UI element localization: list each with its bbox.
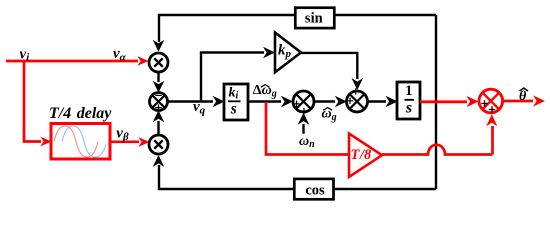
waveform blue sine inside T/4 delay box	[62, 126, 106, 157]
wire: S0 output vq to ki/s box	[168, 96, 225, 108]
node delta omega_g hat label	[253, 83, 277, 100]
wire: red tap from delta-omega node down and right to T/8	[266, 102, 349, 155]
wire: red input line vi	[6, 56, 149, 66]
box ki/s integrator	[224, 84, 248, 120]
multiplier M2	[149, 135, 168, 154]
summing junction S1 with plus plus	[293, 91, 314, 114]
wire: M2 output up into summing junction S0	[153, 110, 165, 135]
op-amp kp	[275, 33, 301, 73]
wire: top feedback line from sin box going left then down into multiplier M1	[153, 15, 296, 52]
op-amp T/8 (red)	[349, 134, 382, 178]
wire: branch from vq line up and right into kp amplifier	[201, 47, 275, 102]
box T/4 delay	[49, 105, 112, 159]
wire: omega_n input up into S1	[298, 113, 310, 134]
box 1/s integrator	[397, 82, 420, 119]
svg-text:T/8: T/8	[351, 147, 372, 163]
box sin	[295, 8, 334, 28]
node omega_g hat label	[322, 106, 337, 123]
svg-text:T/4 delay: T/4 delay	[49, 105, 112, 122]
svg-text:s: s	[405, 100, 412, 117]
svg-text:cos: cos	[305, 183, 325, 199]
box cos	[294, 179, 333, 199]
wire: T/4 delay output (v_beta) into multiplier M2	[110, 137, 150, 147]
svg-text:s: s	[230, 101, 237, 118]
wire: 1/s output (red) across feedback line into summing junction S3	[420, 96, 479, 107]
wire: bottom feedback line from vertical line to cos box	[334, 188, 437, 190]
wire: theta hat output (red)	[503, 95, 545, 106]
svg-text:vα: vα	[113, 46, 127, 64]
wire: cos box left side going left then up into multiplier M2	[153, 155, 295, 189]
svg-text:ωn: ωn	[299, 134, 315, 150]
summing junction S0 with minus and plus	[150, 93, 168, 111]
wire: vertical feedback line on the right	[435, 15, 437, 189]
wire: sin box right side to vertical feedback line	[334, 14, 436, 16]
summing junction S3 (red) with plus plus	[479, 89, 503, 113]
wire: S2 output into 1/s integrator	[368, 96, 398, 108]
wire: red vertical up into S3	[486, 114, 497, 154]
wire: S1 output (omega_g hat) into summing junction S2	[314, 96, 347, 108]
waveform red sine inside T/4 delay box	[54, 126, 98, 157]
wire: kp output right then down into summing junction S2	[301, 53, 363, 90]
wire: ki/s output (delta omega hat) into summing junction S1	[248, 96, 293, 108]
wire: red branch from vi down and right into T/4 delay box	[24, 61, 52, 146]
multiplier M1	[149, 53, 168, 72]
wire: M1 output down into summing junction S0	[153, 72, 165, 93]
svg-text:sin: sin	[305, 11, 323, 27]
svg-text:1: 1	[405, 83, 413, 99]
svg-text:vi: vi	[20, 47, 31, 64]
svg-text:vβ: vβ	[116, 126, 129, 144]
summing junction S2 with plus plus	[347, 88, 368, 112]
node theta hat label	[519, 88, 528, 104]
wire: T/8 output with hop over the feedback line (red)	[382, 145, 493, 155]
